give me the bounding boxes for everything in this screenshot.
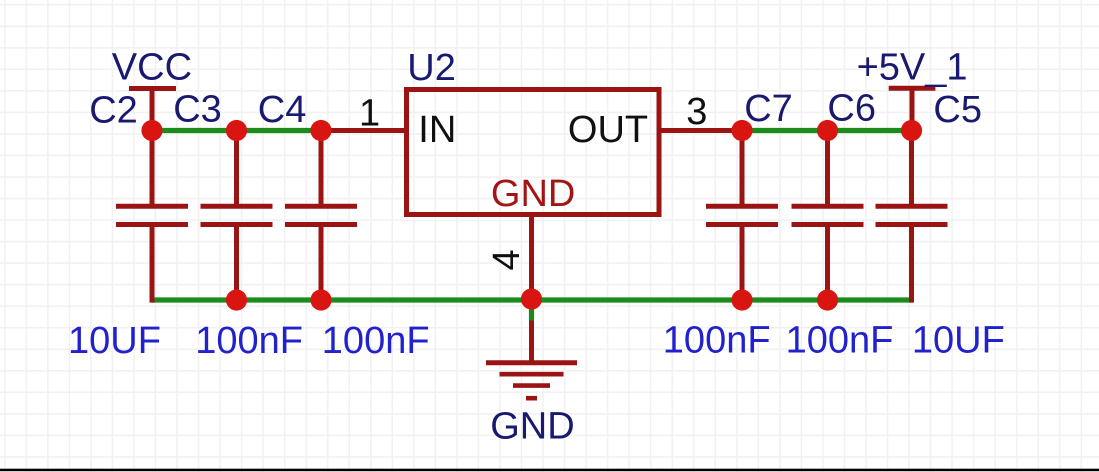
power symbol VCC xyxy=(129,89,176,131)
junction at C4 bottom xyxy=(310,289,331,310)
svg-text:C7: C7 xyxy=(744,88,793,130)
pin 4 wire (GND) xyxy=(529,215,534,301)
svg-text:4: 4 xyxy=(486,249,528,270)
svg-text:100nF: 100nF xyxy=(786,320,894,362)
wire: top-left green net (C2-C3-C4) xyxy=(152,128,321,133)
svg-text:C4: C4 xyxy=(258,89,307,131)
wire: ground stub below junction xyxy=(529,300,534,321)
svg-text:C2: C2 xyxy=(89,89,138,131)
junction at C7 bottom xyxy=(731,289,752,310)
svg-text:100nF: 100nF xyxy=(322,320,430,362)
svg-text:100nF: 100nF xyxy=(195,320,303,362)
junction at GND pin xyxy=(521,288,542,309)
svg-text:C5: C5 xyxy=(933,89,982,131)
wire: bottom ground net xyxy=(152,297,912,302)
svg-text:100nF: 100nF xyxy=(663,320,771,362)
junction at C7 top xyxy=(731,120,752,141)
svg-text:1: 1 xyxy=(359,93,380,135)
svg-text:10UF: 10UF xyxy=(912,320,1005,362)
svg-text:IN: IN xyxy=(418,109,456,151)
svg-text:GND: GND xyxy=(491,173,575,215)
svg-text:C3: C3 xyxy=(173,89,222,131)
svg-text:GND: GND xyxy=(490,406,574,448)
svg-text:3: 3 xyxy=(686,91,707,133)
regulator U2 body xyxy=(407,90,660,215)
capacitor C2 xyxy=(116,131,188,303)
svg-text:U2: U2 xyxy=(407,47,456,89)
capacitor C6 xyxy=(792,131,864,301)
wire: top-right green net (C7-C6-C5) xyxy=(742,128,912,133)
svg-text:VCC: VCC xyxy=(112,47,192,89)
ground symbol GND xyxy=(486,321,577,399)
pin 3 wire (OUT) xyxy=(659,128,742,133)
svg-text:OUT: OUT xyxy=(568,109,648,151)
junction at C3 bottom xyxy=(226,289,247,310)
junction at C6 bottom xyxy=(817,289,838,310)
pin 1 wire (IN) xyxy=(321,128,407,133)
power symbol +5V_1 xyxy=(889,88,936,130)
capacitor C5 xyxy=(876,131,948,303)
capacitor C7 xyxy=(706,131,778,301)
junction at C2 top xyxy=(141,120,162,141)
svg-text:10UF: 10UF xyxy=(68,320,161,362)
svg-text:+5V_1: +5V_1 xyxy=(857,47,968,89)
junction at C5 top xyxy=(901,120,922,141)
capacitor C4 xyxy=(285,131,357,301)
junction at C6 top xyxy=(817,120,838,141)
junction at C4 top xyxy=(310,120,331,141)
junction at C3 top xyxy=(226,120,247,141)
capacitor C3 xyxy=(201,131,273,301)
